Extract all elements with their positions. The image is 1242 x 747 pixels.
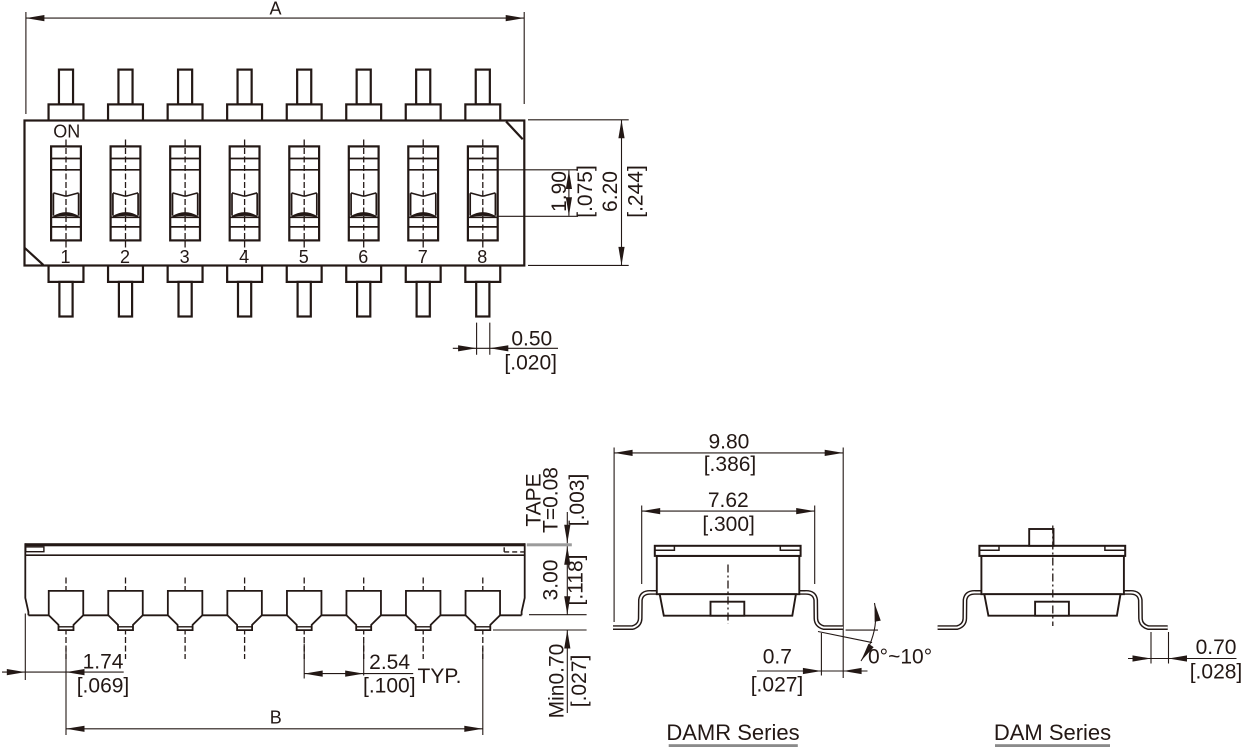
svg-text:6: 6 <box>358 247 368 267</box>
svg-text:0.70: 0.70 <box>1196 636 1237 659</box>
svg-text:[.020]: [.020] <box>504 352 557 375</box>
B extension lines <box>66 648 483 735</box>
tape end box left <box>26 547 44 552</box>
0.7 extension line <box>820 633 822 676</box>
svg-text:9.80: 9.80 <box>708 431 749 454</box>
body outline <box>25 121 525 266</box>
1.74 extension line at left <box>24 614 26 681</box>
svg-text:[.118]: [.118] <box>565 555 588 606</box>
svg-text:DAMR Series: DAMR Series <box>666 720 799 745</box>
svg-text:0.7: 0.7 <box>763 646 792 669</box>
tape bar on top <box>25 543 524 546</box>
dimension A line <box>26 17 524 19</box>
svg-text:[.069]: [.069] <box>77 675 130 698</box>
svg-text:[.028]: [.028] <box>1190 661 1242 684</box>
0.50 extension lines <box>477 323 490 355</box>
switch cells 1-8 <box>51 140 81 268</box>
TAPE dimension <box>566 512 568 543</box>
1.90 dimension line <box>568 171 570 216</box>
0.70 dimension line <box>1128 658 1237 660</box>
side view pins 1-8 <box>49 578 84 660</box>
top-right corner chamfer line <box>506 122 523 140</box>
svg-text:7: 7 <box>418 247 428 267</box>
svg-text:[.003]: [.003] <box>566 474 589 527</box>
dimension A extension lines <box>26 12 524 114</box>
9.80 extension lines <box>614 448 843 679</box>
angle reference horizontal line <box>846 629 878 631</box>
svg-text:[.075]: [.075] <box>574 165 597 218</box>
svg-text:A: A <box>269 0 281 19</box>
svg-text:2.54: 2.54 <box>369 651 410 674</box>
0.7 dimension line <box>757 670 868 672</box>
0.70 extension lines <box>1151 632 1169 664</box>
side body bottom edge segments <box>28 614 521 616</box>
DAM package <box>938 546 1168 628</box>
angle slanted line <box>818 632 872 643</box>
svg-text:1: 1 <box>60 247 70 267</box>
2.54 dimension line <box>304 673 413 675</box>
bottom pins 1-8 <box>49 266 84 317</box>
svg-text:B: B <box>270 708 282 728</box>
DAM actuator tab <box>1029 529 1053 546</box>
tape gray extension <box>527 543 572 546</box>
0.50 dimension line <box>453 347 558 349</box>
7.62 dimension line <box>642 510 815 512</box>
DAMR package <box>613 546 843 628</box>
svg-text:0.50: 0.50 <box>511 328 552 351</box>
svg-text:[.300]: [.300] <box>702 513 755 536</box>
svg-text:7.62: 7.62 <box>708 489 749 512</box>
side body right edge <box>522 543 525 615</box>
side body left edge <box>25 543 28 615</box>
svg-text:Min0.70: Min0.70 <box>546 644 569 719</box>
svg-text:5: 5 <box>299 247 309 267</box>
svg-text:TYP.: TYP. <box>418 665 462 688</box>
svg-text:T=0.08: T=0.08 <box>540 467 563 533</box>
1.90 leader lines from switch 8 <box>497 170 578 217</box>
B dimension line <box>66 728 483 730</box>
top pins 1-8 <box>49 70 84 121</box>
svg-text:2: 2 <box>120 247 130 267</box>
svg-text:[.027]: [.027] <box>568 655 591 708</box>
2.54 extension lines <box>304 643 364 679</box>
DAM centerline <box>1052 526 1054 627</box>
Min0.70 dimension <box>493 629 587 631</box>
1.74 dimension line <box>2 671 124 673</box>
svg-text:6.20: 6.20 <box>599 171 622 212</box>
6.20 dimension line <box>621 120 623 266</box>
svg-text:4: 4 <box>239 247 249 267</box>
3.00 dimension <box>566 546 568 614</box>
svg-text:[.386]: [.386] <box>704 453 757 476</box>
angle arc <box>861 603 876 661</box>
svg-text:0°~10°: 0°~10° <box>868 646 932 669</box>
svg-text:1.74: 1.74 <box>83 651 124 674</box>
svg-text:3: 3 <box>180 247 190 267</box>
tape end box right dashed <box>503 547 505 552</box>
6.20 extension lines <box>528 120 629 266</box>
DAMR centerline <box>727 565 729 624</box>
9.80 dimension line <box>614 452 843 454</box>
7.62 extension lines <box>642 506 815 585</box>
body top line under tape <box>25 554 524 556</box>
bottom-left corner chamfer line <box>25 248 44 265</box>
svg-text:ON: ON <box>53 122 80 142</box>
svg-text:8: 8 <box>477 247 487 267</box>
svg-text:1.90: 1.90 <box>548 171 571 212</box>
svg-text:DAM Series: DAM Series <box>994 720 1111 745</box>
svg-text:[.244]: [.244] <box>625 165 648 218</box>
svg-text:[.100]: [.100] <box>363 675 416 698</box>
svg-text:[.027]: [.027] <box>751 674 804 697</box>
svg-text:3.00: 3.00 <box>540 560 563 601</box>
